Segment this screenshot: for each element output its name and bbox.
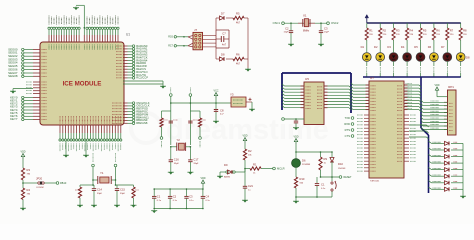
- svg-text:R1: R1: [369, 29, 373, 33]
- svg-text:R8: R8: [463, 29, 467, 33]
- svg-text:ICE MODULE: ICE MODULE: [63, 81, 102, 88]
- svg-text:MCLR: MCLR: [277, 166, 285, 170]
- svg-text:4n7: 4n7: [222, 44, 227, 47]
- svg-text:C1: C1: [157, 195, 161, 199]
- svg-text:4k7: 4k7: [236, 22, 241, 25]
- svg-text:R9: R9: [324, 157, 328, 161]
- svg-text:R4: R4: [27, 188, 31, 192]
- svg-text:VDD: VDD: [20, 151, 25, 154]
- svg-text:Y1: Y1: [100, 171, 104, 175]
- svg-text:D8: D8: [466, 56, 470, 60]
- svg-text:J7: J7: [194, 28, 197, 32]
- svg-text:4k7: 4k7: [236, 63, 241, 66]
- svg-text:R1: R1: [253, 163, 257, 167]
- svg-text:C8: C8: [220, 109, 224, 113]
- svg-text:C16: C16: [174, 158, 179, 162]
- svg-text:33pF: 33pF: [193, 163, 199, 165]
- svg-text:1N4148: 1N4148: [338, 168, 346, 170]
- svg-text:Y3: Y3: [230, 93, 234, 97]
- svg-text:R7: R7: [450, 29, 454, 33]
- svg-text:JP20: JP20: [36, 177, 43, 181]
- svg-text:KEY7: KEY7: [10, 117, 18, 121]
- svg-text:74HC541: 74HC541: [370, 181, 380, 183]
- svg-text:D10: D10: [338, 162, 343, 166]
- svg-text:R6: R6: [436, 29, 440, 33]
- svg-text:VDD: VDD: [434, 84, 439, 87]
- svg-text:D6: D6: [428, 45, 432, 49]
- svg-text:VDD: VDD: [293, 136, 298, 139]
- svg-text:OSC1: OSC1: [273, 21, 281, 25]
- svg-text:POWER: POWER: [302, 164, 311, 166]
- svg-text:RB2/AN8: RB2/AN8: [136, 121, 148, 125]
- svg-text:15pF: 15pF: [324, 32, 330, 34]
- svg-text:C3: C3: [189, 195, 193, 199]
- svg-text:RP1: RP1: [448, 85, 454, 89]
- svg-text:C21: C21: [248, 184, 253, 188]
- svg-text:D7: D7: [221, 12, 225, 16]
- svg-text:R2: R2: [383, 29, 387, 33]
- svg-text:D5: D5: [414, 45, 418, 49]
- svg-text:R10: R10: [300, 177, 305, 181]
- svg-text:RC7: RC7: [168, 45, 173, 48]
- svg-text:U1: U1: [126, 33, 130, 37]
- svg-text:C2: C2: [285, 27, 289, 31]
- svg-text:C3: C3: [324, 27, 328, 31]
- svg-text:RXD: RXD: [344, 122, 350, 126]
- svg-text:R5: R5: [236, 12, 240, 16]
- svg-text:R3: R3: [27, 168, 31, 172]
- svg-text:C1: C1: [321, 183, 325, 187]
- svg-text:R2: R2: [248, 149, 252, 153]
- svg-text:C17: C17: [193, 158, 198, 162]
- svg-text:RC2/CCP: RC2/CCP: [136, 76, 148, 80]
- svg-text:C14: C14: [97, 188, 102, 192]
- svg-text:VCC: VCC: [213, 90, 218, 93]
- svg-text:TXD: TXD: [345, 116, 350, 120]
- svg-text:D3: D3: [387, 45, 391, 49]
- svg-text:Y2: Y2: [177, 138, 181, 142]
- svg-text:D7: D7: [441, 45, 445, 49]
- svg-text:15pF: 15pF: [284, 32, 290, 34]
- svg-text:RC6: RC6: [168, 36, 173, 39]
- svg-text:C15: C15: [120, 188, 125, 192]
- svg-text:CON2M: CON2M: [36, 187, 44, 189]
- svg-text:33pF: 33pF: [120, 193, 126, 195]
- svg-text:8MHz: 8MHz: [303, 30, 310, 33]
- svg-text:D1: D1: [361, 45, 365, 49]
- svg-text:R5: R5: [423, 29, 427, 33]
- svg-text:RESET: RESET: [344, 176, 353, 179]
- svg-text:D4: D4: [401, 45, 405, 49]
- svg-text:SEG08: SEG08: [8, 74, 18, 78]
- svg-text:C7: C7: [222, 32, 226, 36]
- svg-text:D2: D2: [374, 45, 378, 49]
- svg-text:C2: C2: [173, 195, 177, 199]
- svg-text:VDD: VDD: [200, 177, 205, 180]
- svg-text:33pF: 33pF: [97, 193, 103, 195]
- svg-text:C4: C4: [206, 195, 210, 199]
- svg-text:VDD: VDD: [242, 135, 247, 138]
- svg-text:U7: U7: [370, 76, 374, 80]
- svg-text:BAT85: BAT85: [224, 176, 231, 179]
- svg-text:D6: D6: [302, 159, 306, 163]
- svg-text:CTS: CTS: [345, 134, 351, 138]
- svg-text:R6: R6: [236, 53, 240, 57]
- svg-text:D9: D9: [224, 163, 228, 167]
- svg-text:R3: R3: [396, 29, 400, 33]
- svg-text:D8: D8: [221, 53, 225, 57]
- svg-text:33pF: 33pF: [174, 163, 180, 165]
- svg-text:U5: U5: [305, 77, 309, 81]
- svg-text:R4: R4: [410, 29, 414, 33]
- svg-text:X1: X1: [303, 14, 307, 18]
- svg-text:RTS: RTS: [345, 128, 351, 132]
- svg-text:OSC2: OSC2: [331, 21, 339, 25]
- svg-text:RB10: RB10: [60, 182, 67, 185]
